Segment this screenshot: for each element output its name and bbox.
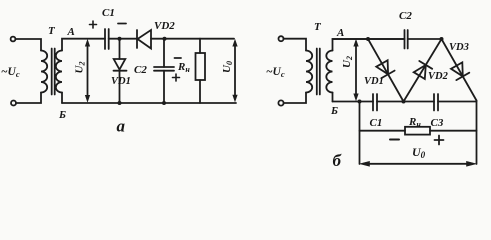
minus sign C1 (118, 23, 126, 25)
minus sign C2 (175, 57, 182, 59)
svg-text:C1: C1 (370, 117, 383, 129)
bottom rail (62, 102, 236, 104)
svg-text:C1: C1 (102, 7, 115, 19)
label U0 (412, 145, 426, 160)
diode VD3 diagonal wire (442, 39, 477, 101)
caption a (117, 117, 126, 136)
caption b (333, 151, 343, 170)
diode VD1 branch wire upper (119, 39, 121, 59)
label U2 (74, 62, 87, 74)
input terminal top-left (11, 37, 16, 42)
label A (336, 27, 344, 39)
U0 output arrow (234, 44, 236, 97)
svg-text:VD1: VD1 (364, 76, 384, 87)
node junction output tap left (358, 100, 362, 104)
plus sign C1 (90, 21, 97, 28)
svg-text:U0: U0 (221, 61, 234, 73)
label C2 (399, 10, 412, 22)
wire primary top (284, 39, 307, 51)
label C2 (134, 64, 147, 76)
node junction VD1 top (366, 37, 370, 41)
input terminal top-left (279, 36, 284, 41)
input terminal bottom-left (11, 101, 16, 106)
label Rn (177, 61, 190, 74)
top rail left of C2 (333, 38, 405, 40)
node junction VD2/C2 (163, 37, 167, 41)
diode VD3 (451, 62, 463, 76)
capacitor C1 plates (105, 29, 109, 49)
node junction C2 bottom (162, 101, 166, 105)
svg-text:VD3: VD3 (449, 42, 469, 53)
U0 dimension arrow (364, 163, 472, 165)
svg-text:VD1: VD1 (111, 76, 131, 87)
label Rn (408, 116, 421, 129)
node junction C1/VD1 (118, 37, 122, 41)
diode VD1 (376, 60, 388, 74)
label VD1 (111, 76, 131, 87)
plus sign C2 (173, 74, 180, 81)
label C1 (370, 117, 383, 129)
diode VD1 diagonal wire (368, 39, 404, 102)
svg-text:б: б (333, 151, 343, 170)
capacitor C2 plates (405, 30, 408, 49)
transformer T secondary winding (326, 51, 332, 93)
label B (Б) (330, 105, 338, 117)
U2 measuring arrow (355, 44, 357, 96)
node junction VD1 bottom (118, 101, 122, 105)
svg-text:T: T (314, 21, 322, 33)
svg-text:Rн: Rн (408, 116, 421, 129)
capacitor C2 branch wire lower (163, 71, 165, 103)
svg-text:Б: Б (330, 105, 338, 117)
label U0 (221, 61, 234, 73)
capacitor C2 plates (154, 67, 174, 71)
output left vertical wire (359, 102, 361, 165)
svg-text:Rн: Rн (177, 61, 190, 74)
capacitor C1 plates (373, 94, 377, 111)
diode VD2 (414, 65, 426, 79)
label C1 (102, 7, 115, 19)
lower wire right of Rn (430, 130, 477, 132)
label C3 (431, 117, 444, 129)
U2 measuring arrow (87, 44, 89, 97)
resistor Rn (196, 53, 206, 80)
middle rail C1 to C3 (377, 101, 434, 103)
svg-text:~Uc: ~Uc (266, 66, 285, 79)
svg-text:C2: C2 (399, 10, 412, 22)
transformer core (317, 49, 320, 95)
transformer core (52, 49, 55, 95)
svg-text:U2: U2 (341, 56, 354, 68)
resistor Rn wire top (199, 39, 201, 53)
svg-text:C2: C2 (134, 64, 147, 76)
resistor Rn (405, 127, 430, 135)
label ~Uc (1, 66, 20, 79)
svg-text:C3: C3 (431, 117, 444, 129)
diode VD1 branch wire lower (119, 71, 121, 103)
label T (48, 25, 56, 37)
node junction diode vertex bottom (402, 100, 406, 104)
minus sign output (390, 139, 399, 141)
svg-text:A: A (67, 26, 75, 38)
svg-text:а: а (117, 117, 126, 136)
label B (Б) (58, 109, 66, 121)
top rail right of C2 (408, 38, 442, 40)
wire secondary bottom (61, 93, 63, 104)
svg-text:VD2: VD2 (154, 20, 175, 32)
middle rail right of C3 (438, 101, 477, 103)
transformer T primary winding (306, 51, 312, 93)
label VD2 (428, 71, 449, 82)
capacitor C3 plates (434, 94, 438, 111)
svg-text:U0: U0 (412, 145, 426, 160)
label ~Uc (266, 66, 285, 79)
diode VD2 triangle (138, 30, 152, 49)
wire secondary top to rail (333, 39, 405, 51)
wire primary bottom (16, 93, 41, 104)
resistor Rn wire bottom (199, 80, 201, 103)
svg-text:T: T (48, 25, 56, 37)
transformer T primary winding (41, 51, 47, 93)
svg-text:~Uc: ~Uc (1, 66, 20, 79)
node A / wire secondary top to rail (62, 39, 105, 51)
wire VD2 to right (151, 38, 234, 40)
wire primary top (16, 39, 42, 51)
plus sign output (435, 136, 444, 145)
label T (314, 21, 322, 33)
svg-text:VD2: VD2 (428, 71, 449, 82)
svg-text:A: A (336, 27, 344, 39)
svg-text:U2: U2 (74, 62, 87, 74)
label A (67, 26, 75, 38)
lower wire left of Rn (360, 130, 406, 132)
node junction diode vertex top (440, 37, 444, 41)
diode VD2 diagonal wire (404, 39, 442, 102)
label VD3 (449, 42, 469, 53)
label VD2 (154, 20, 175, 32)
wire primary bottom (284, 93, 307, 104)
wire secondary bottom (332, 93, 334, 102)
transformer T secondary winding (56, 51, 62, 93)
diode VD1 (114, 59, 126, 70)
capacitor C2 branch wire upper (163, 39, 165, 67)
label VD1 (364, 76, 384, 87)
input terminal bottom-left (278, 100, 283, 105)
middle rail left of C1 (333, 101, 374, 103)
wire C1 to VD2 (109, 38, 137, 40)
output right vertical wire (476, 101, 478, 165)
label U2 (341, 56, 354, 68)
svg-text:Б: Б (58, 109, 66, 121)
diode VD2 cathode bar (136, 30, 138, 48)
